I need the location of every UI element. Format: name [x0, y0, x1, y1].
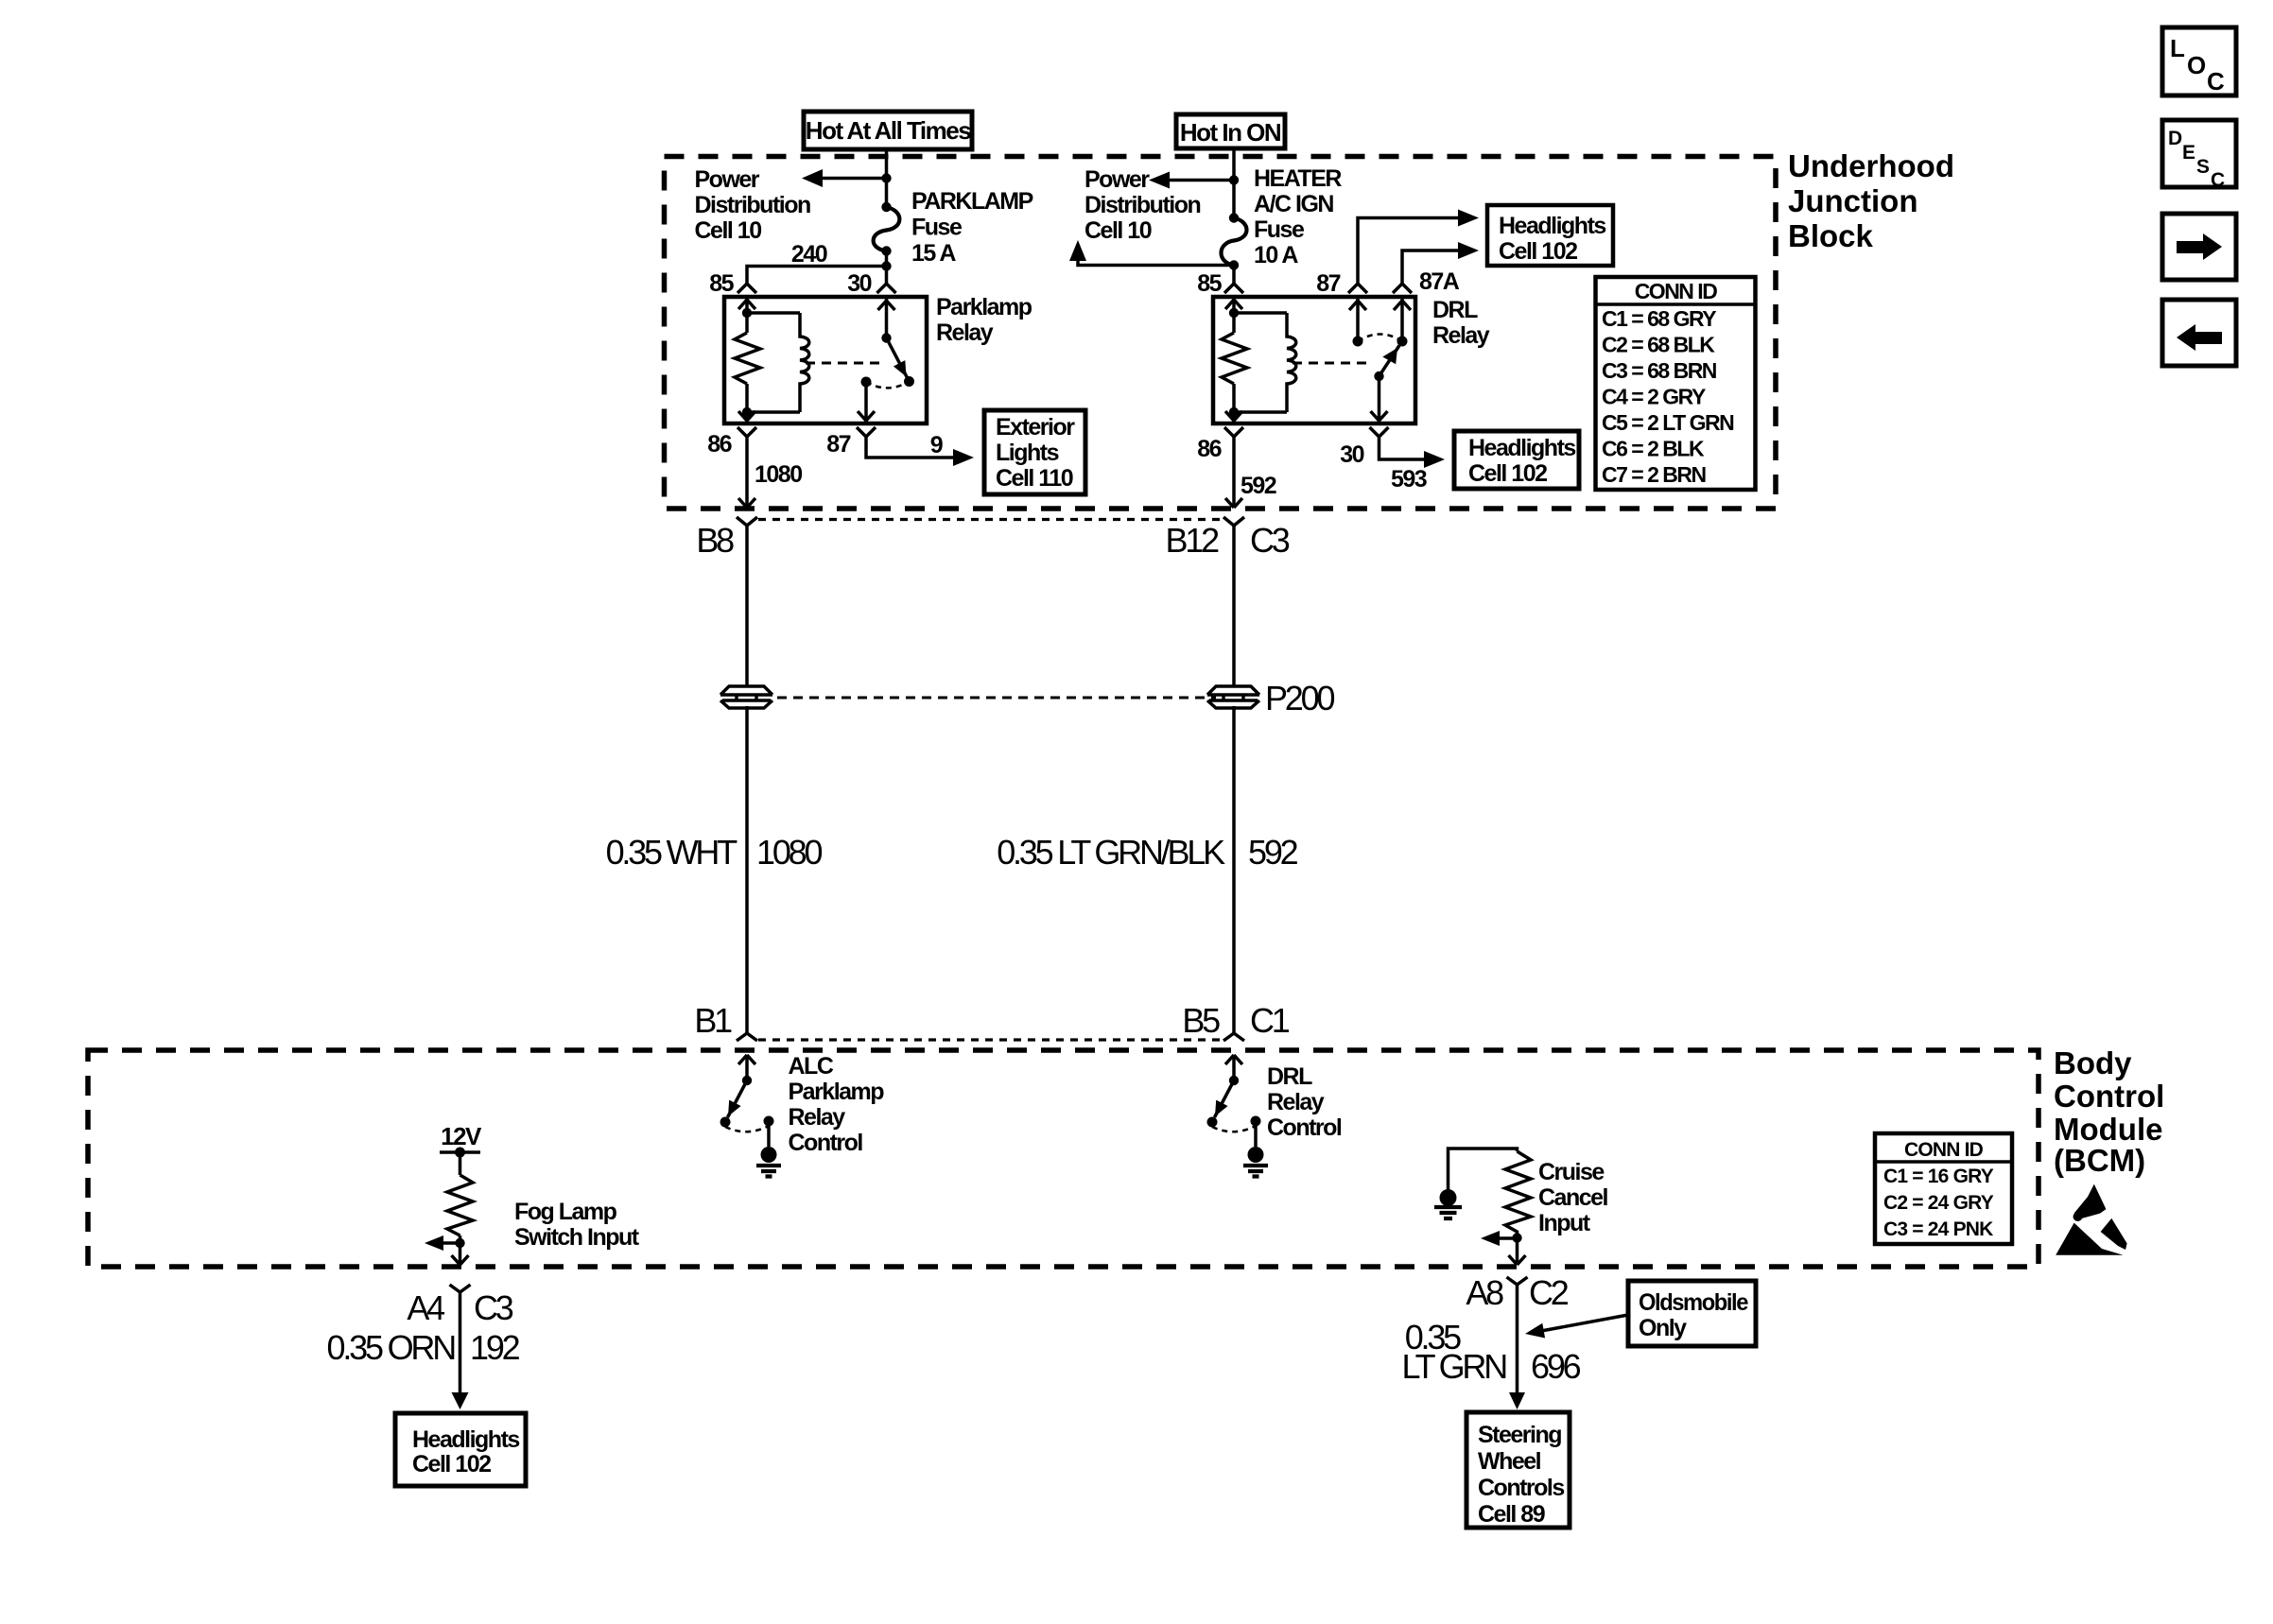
Power Distribution Cell 10 label (right) [1084, 166, 1200, 244]
wire fog to BCM edge [459, 1243, 462, 1265]
svg-text:240: 240 [791, 241, 827, 268]
node: junction on left feed [881, 173, 891, 182]
svg-text:C: C [2211, 169, 2225, 191]
wire pin86 down to UJB edge [745, 437, 749, 508]
svg-text:Controls: Controls [1478, 1475, 1564, 1501]
svg-text:Input: Input [1538, 1210, 1591, 1236]
node coil bottom K2 [1229, 407, 1239, 417]
PARKLAMP Fuse 15 A label [911, 188, 1033, 267]
connector pin 87 right relay [1348, 284, 1367, 293]
svg-text:30: 30 [847, 270, 871, 297]
switch common wire pin30 K1 [885, 297, 889, 338]
node ALC right contact [764, 1116, 774, 1127]
arrow up into Cell 10 (right) [1069, 240, 1086, 261]
svg-text:87A: 87A [1419, 268, 1460, 295]
arrow up pin30 inside relay [878, 301, 895, 310]
svg-text:B1: B1 [694, 1001, 732, 1040]
relay K2 coil branch wires [1234, 297, 1287, 423]
svg-text:Power: Power [1084, 166, 1150, 193]
arrow into Headlights box [452, 1392, 469, 1409]
svg-text:C2 = 24 GRY: C2 = 24 GRY [1883, 1192, 1994, 1214]
resistor (relay K1) [735, 333, 760, 384]
svg-text:C1: C1 [1250, 1001, 1290, 1040]
svg-text:CONN ID: CONN ID [1635, 279, 1718, 303]
svg-text:C5 = 2 LT GRN: C5 = 2 LT GRN [1602, 410, 1734, 435]
svg-text:593: 593 [1391, 466, 1427, 492]
svg-text:Relay: Relay [1432, 322, 1490, 349]
svg-text:192: 192 [470, 1328, 520, 1367]
dashed travel arc K2 [1358, 335, 1402, 342]
connector boundary (dotted, BCM side) [758, 1038, 1223, 1041]
svg-text:Parklamp: Parklamp [936, 294, 1032, 320]
svg-text:Exterior: Exterior [996, 414, 1075, 441]
wire arrow to Power Distribution Cell 10 (right) [1149, 172, 1234, 189]
svg-text:Control: Control [2054, 1079, 2164, 1114]
node DRL right contact [1251, 1116, 1261, 1127]
Fog Lamp Switch Input label [514, 1199, 640, 1251]
node: junction on right feed [1229, 175, 1239, 184]
svg-text:0.35 WHT: 0.35 WHT [606, 833, 738, 872]
node DRL left contact [1207, 1117, 1218, 1128]
arrow up pin85 inside K2 [1225, 300, 1242, 309]
svg-text:Oldsmobile: Oldsmobile [1639, 1289, 1749, 1316]
node pin87 contact K1 [861, 377, 872, 388]
svg-text:Wheel: Wheel [1478, 1448, 1541, 1475]
HEATER A/C IGN Fuse 10 A label [1254, 165, 1342, 268]
arrow down pin30 inside K2 [1371, 411, 1388, 421]
arrow down at BCM exit A4 [452, 1255, 469, 1265]
dashed travel arc K1 [866, 382, 910, 389]
fog lamp resistor [447, 1152, 473, 1243]
svg-text:A4: A4 [407, 1288, 444, 1327]
switch blade K1 [887, 338, 910, 382]
node DRL pivot [1229, 1076, 1239, 1085]
left arrow icon [2162, 300, 2236, 366]
svg-text:Module: Module [2054, 1112, 2162, 1147]
node fog junction [455, 1238, 464, 1248]
node ALC left contact [720, 1117, 731, 1128]
svg-text:Cell 102: Cell 102 [1499, 238, 1577, 265]
svg-text:87: 87 [826, 431, 850, 458]
svg-text:Block: Block [1788, 218, 1874, 253]
DRL ground [1243, 1121, 1268, 1177]
connector pin 86 left relay [737, 427, 756, 437]
Parklamp Relay label [936, 294, 1032, 346]
relay K2 DRL Relay box [1213, 297, 1415, 423]
dashed P200 linking line [777, 697, 1216, 700]
svg-text:Control: Control [1267, 1114, 1342, 1141]
right arrow icon [2162, 214, 2236, 280]
svg-text:C2 = 68 BLK: C2 = 68 BLK [1602, 333, 1715, 357]
svg-text:C3 = 24 PNK: C3 = 24 PNK [1883, 1218, 1993, 1240]
node switch pivot K1 [881, 333, 891, 342]
wire pin 87A contact K2 [1400, 297, 1404, 341]
resistor (relay K2) [1222, 333, 1247, 384]
svg-text:Lights: Lights [996, 440, 1059, 466]
wire pin87 K1 [864, 382, 868, 423]
wire A4 to Headlights cell [459, 1304, 462, 1392]
svg-text:Cancel: Cancel [1538, 1184, 1608, 1211]
wire pin 87A to Headlights (top) [1402, 242, 1479, 284]
wire B8 to P200 [745, 526, 749, 686]
connector B8 [737, 517, 757, 526]
svg-text:Fog Lamp: Fog Lamp [514, 1199, 617, 1225]
dashed actuation link K1 [806, 362, 880, 365]
svg-text:Steering: Steering [1478, 1422, 1561, 1448]
wire pin 87 to Headlights (top) [1358, 210, 1479, 285]
node contact 87 K2 [1353, 337, 1363, 347]
wire 240 branch [747, 267, 887, 285]
wire pin86 right down to UJB edge [1232, 437, 1236, 508]
cruise output arrow left [1481, 1231, 1518, 1246]
arrow down at BCM exit A8 [1509, 1255, 1526, 1265]
Underhood Junction Block dashed boundary [665, 157, 1777, 510]
svg-text:86: 86 [707, 431, 731, 458]
svg-text:Cell 89: Cell 89 [1478, 1501, 1545, 1528]
svg-text:Distribution: Distribution [1084, 192, 1200, 218]
relay K1 Parklamp Relay box [724, 297, 927, 423]
svg-text:9: 9 [930, 432, 943, 458]
arrow up pin87A inside K2 [1394, 301, 1411, 310]
svg-text:C1 = 68 GRY: C1 = 68 GRY [1602, 306, 1716, 331]
arrow down pin86 inside K2 [1225, 411, 1242, 421]
svg-text:86: 86 [1197, 436, 1221, 462]
svg-text:Hot At All Times: Hot At All Times [806, 116, 971, 145]
connector pin 30 right relay [1370, 427, 1389, 437]
ALC ground [756, 1121, 781, 1177]
DRL switch blade [1215, 1080, 1235, 1117]
svg-text:C2: C2 [1529, 1273, 1569, 1312]
wire P200 to B1 [745, 706, 749, 1033]
node switch pivot K2 [1374, 371, 1383, 381]
connector C2 boundary (dotted, UJB side) [758, 518, 1223, 521]
wire fuse to pin 30 [885, 251, 889, 285]
connector pin 86 right relay [1224, 427, 1243, 437]
wire fuse to pin 85 right [1232, 266, 1236, 285]
svg-text:1080: 1080 [756, 833, 822, 872]
connector pin 87 left relay [857, 427, 876, 437]
svg-text:Body: Body [2054, 1045, 2132, 1080]
dashed travel arc ALC [725, 1126, 769, 1132]
svg-text:Headlights: Headlights [1468, 435, 1575, 461]
svg-text:696: 696 [1531, 1347, 1581, 1386]
connector pin 85 left relay [737, 284, 756, 293]
Oldsmobile Only box [1628, 1281, 1756, 1346]
svg-text:30: 30 [1340, 441, 1363, 468]
svg-text:B5: B5 [1182, 1001, 1220, 1040]
wire A8 to Steering Wheel Controls [1516, 1298, 1519, 1392]
Headlights Cell 102 box (top) [1487, 205, 1613, 266]
coil (relay K2) [1287, 313, 1296, 412]
svg-text:O: O [2187, 51, 2206, 79]
svg-text:C4 = 2 GRY: C4 = 2 GRY [1602, 385, 1706, 409]
blade arrowhead K2 [1382, 348, 1397, 364]
svg-text:P200: P200 [1265, 679, 1334, 717]
ALC switch blade [728, 1080, 748, 1117]
svg-text:C: C [2207, 67, 2225, 95]
node blade contact K1 [904, 376, 914, 387]
CONN ID table (BCM) [1875, 1133, 2012, 1244]
node: junction with 240 branch [881, 261, 891, 270]
connector A4 [450, 1285, 471, 1304]
ALC parklamp relay control switch arrow [738, 1055, 755, 1080]
connector B1 [737, 1033, 757, 1041]
arrow down at UJB exit left [738, 498, 755, 508]
svg-text:(BCM): (BCM) [2054, 1143, 2145, 1178]
svg-text:A8: A8 [1466, 1273, 1503, 1312]
Steering Wheel Controls Cell 89 box [1466, 1412, 1570, 1528]
svg-text:Distribution: Distribution [695, 192, 810, 218]
svg-text:Parklamp: Parklamp [789, 1079, 885, 1105]
dashed travel arc DRL [1212, 1126, 1256, 1132]
svg-text:HEATER: HEATER [1254, 165, 1342, 192]
wire pin87 to Exterior Lights [866, 437, 974, 466]
12V supply bar [440, 1122, 482, 1158]
connector A8 [1507, 1277, 1528, 1298]
connector pin 85 right relay [1224, 284, 1243, 293]
svg-text:C6 = 2 BLK: C6 = 2 BLK [1602, 437, 1705, 461]
arrow down pin86 inside relay [738, 411, 755, 421]
Headlights Cell 102 box (bottom) [395, 1413, 526, 1486]
svg-text:S: S [2196, 156, 2210, 178]
connector pin 30 left relay [877, 284, 896, 293]
svg-text:D: D [2168, 128, 2182, 149]
svg-text:ALC: ALC [789, 1053, 834, 1080]
svg-text:PARKLAMP: PARKLAMP [911, 188, 1033, 215]
ESD sensitivity symbol [2056, 1184, 2126, 1255]
svg-text:Cell 102: Cell 102 [412, 1451, 491, 1477]
svg-text:0.35 ORN: 0.35 ORN [327, 1328, 456, 1367]
svg-text:CONN ID: CONN ID [1904, 1139, 1984, 1161]
svg-text:E: E [2182, 142, 2195, 164]
Oldsmobile pointer arrow [1525, 1315, 1628, 1339]
wire from Cell10 arrow to fuse bottom [1078, 261, 1234, 266]
Hot In ON box [1176, 114, 1285, 148]
wire pin 87 contact K2 [1356, 297, 1360, 341]
svg-text:Underhood: Underhood [1788, 148, 1954, 183]
svg-text:Headlights: Headlights [1499, 213, 1605, 239]
svg-text:Only: Only [1639, 1315, 1687, 1341]
node cruise junction [1512, 1233, 1521, 1242]
arrow up pin87 inside K2 [1349, 301, 1366, 310]
svg-text:592: 592 [1241, 473, 1276, 499]
LOC icon [2162, 27, 2236, 95]
Underhood Junction Block label [1788, 148, 1954, 253]
svg-text:DRL: DRL [1267, 1063, 1312, 1090]
svg-text:B12: B12 [1166, 521, 1220, 560]
svg-text:592: 592 [1248, 833, 1298, 872]
node coil top K2 [1229, 308, 1239, 318]
connector pin 87A right relay [1393, 284, 1412, 293]
svg-text:15 A: 15 A [911, 240, 956, 267]
DRL relay control switch arrow [1225, 1055, 1242, 1080]
svg-text:0.35 LT GRN/BLK: 0.35 LT GRN/BLK [997, 833, 1225, 872]
arrow down pin87 inside relay [858, 411, 875, 421]
svg-text:Switch Input: Switch Input [514, 1224, 640, 1251]
Cruise Cancel Input label [1538, 1159, 1608, 1236]
wire pin30 K2 [1378, 376, 1381, 423]
Exterior Lights Cell 110 box [984, 410, 1085, 494]
svg-text:Junction: Junction [1788, 183, 1918, 218]
svg-text:Relay: Relay [789, 1104, 846, 1131]
svg-text:C3: C3 [474, 1288, 513, 1327]
svg-text:Relay: Relay [936, 320, 994, 346]
wire B12 to P200 [1232, 526, 1236, 686]
svg-text:L: L [2170, 34, 2185, 62]
connector B12 [1223, 517, 1244, 526]
svg-text:Fuse: Fuse [1254, 216, 1305, 243]
svg-text:Cell 10: Cell 10 [695, 217, 762, 244]
Power Distribution Cell 10 label (left) [695, 166, 810, 244]
svg-text:C3: C3 [1250, 521, 1290, 560]
node coil top [742, 308, 752, 318]
svg-text:Cell 110: Cell 110 [996, 465, 1073, 492]
arrow up pin85 inside relay [738, 300, 755, 309]
node contact 87A K2 [1397, 337, 1408, 347]
coil (relay K1) [800, 313, 809, 412]
svg-text:C3 = 68 BRN: C3 = 68 BRN [1602, 358, 1717, 383]
DRL Relay label [1432, 297, 1490, 349]
dashed actuation link K2 [1293, 362, 1369, 365]
inline connector P200 (right half) [1207, 686, 1259, 708]
fog output arrow left [425, 1235, 460, 1251]
svg-text:87: 87 [1316, 270, 1340, 297]
fuse PARKLAMP 15A [874, 202, 900, 256]
svg-text:DRL: DRL [1432, 297, 1478, 323]
wire cruise to BCM edge [1516, 1238, 1519, 1266]
cruise cancel ground branch [1434, 1149, 1518, 1218]
DESC icon [2162, 120, 2236, 191]
arrow into Steering box [1509, 1392, 1525, 1409]
ALC Parklamp Relay Control label [789, 1053, 885, 1156]
svg-text:A/C IGN: A/C IGN [1254, 191, 1333, 217]
wire pin30 to Headlights (mid) [1379, 437, 1446, 468]
svg-text:Cell 10: Cell 10 [1084, 217, 1152, 244]
svg-text:LT GRN: LT GRN [1402, 1347, 1507, 1386]
svg-text:Hot In ON: Hot In ON [1180, 118, 1281, 147]
Body Control Module dashed boundary [88, 1050, 2039, 1267]
svg-text:Control: Control [789, 1130, 863, 1156]
cruise cancel resistor [1505, 1151, 1531, 1238]
svg-text:Headlights: Headlights [412, 1426, 519, 1453]
blade arrowhead K1 [894, 360, 907, 376]
wire P200 to B5 [1232, 706, 1236, 1033]
connector B5 [1223, 1033, 1244, 1041]
DRL Relay Control label [1267, 1063, 1342, 1141]
wire arrow to Power Distribution Cell 10 (left) [802, 169, 887, 187]
DRL blade arrowhead [1215, 1100, 1228, 1116]
arrow down at UJB exit right [1225, 498, 1242, 508]
inline connector P200 (left half) [720, 686, 772, 708]
wire from Hot In ON [1232, 148, 1236, 218]
svg-text:Power: Power [695, 166, 760, 193]
svg-text:85: 85 [1197, 270, 1222, 297]
svg-text:Fuse: Fuse [911, 215, 963, 241]
svg-text:B8: B8 [696, 521, 734, 560]
svg-text:85: 85 [709, 270, 734, 297]
CONN ID table (UJB) [1596, 277, 1756, 490]
switch blade K2 [1379, 346, 1400, 377]
svg-text:Relay: Relay [1267, 1089, 1325, 1115]
ALC blade arrowhead [728, 1100, 741, 1116]
fuse HEATER A/C IGN 10A [1222, 213, 1247, 269]
wire from Hot At All Times [885, 149, 889, 207]
Body Control Module label [2054, 1045, 2164, 1178]
svg-text:Cruise: Cruise [1538, 1159, 1605, 1185]
Hot At All Times box [804, 112, 972, 149]
svg-text:10 A: 10 A [1254, 242, 1298, 268]
svg-text:12V: 12V [441, 1122, 482, 1150]
relay coil branch wires [747, 297, 800, 423]
svg-text:C1 = 16 GRY: C1 = 16 GRY [1883, 1166, 1994, 1187]
svg-text:C7 = 2 BRN: C7 = 2 BRN [1602, 462, 1707, 487]
svg-text:1080: 1080 [755, 461, 802, 488]
Headlights Cell 102 box (mid) [1454, 431, 1579, 489]
node ALC pivot [742, 1076, 752, 1085]
svg-text:Cell 102: Cell 102 [1468, 460, 1547, 487]
node coil bottom [742, 407, 752, 417]
